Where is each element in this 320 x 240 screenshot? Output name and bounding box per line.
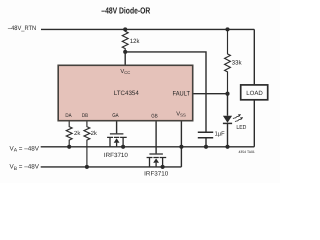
svg-text:GB: GB <box>151 113 158 119</box>
node Q1 drain <box>121 145 125 149</box>
LED D1 <box>227 94 229 147</box>
wire FAULT pin <box>193 93 228 95</box>
transistor Q2 IRF3710 <box>147 154 167 167</box>
wire cap bottom <box>205 138 207 147</box>
svg-text:VCC: VCC <box>120 69 130 75</box>
node cap bottom <box>204 145 208 149</box>
svg-text:LOAD: LOAD <box>246 90 263 97</box>
svg-text:33k: 33k <box>232 59 243 66</box>
svg-text:IRF3710: IRF3710 <box>144 170 169 177</box>
svg-text:2k: 2k <box>91 130 98 137</box>
LED triangle <box>223 116 232 123</box>
op-amp U1 LTC4354 body <box>58 65 193 120</box>
svg-text:2k: 2k <box>74 130 81 137</box>
transistor Q1 body diode <box>114 138 120 142</box>
resistor R1 12k <box>122 29 128 52</box>
svg-text:1µF: 1µF <box>215 130 225 137</box>
wire VSS pin down <box>180 121 182 147</box>
resistor R4 2k (DB) <box>84 121 90 167</box>
node DA rail <box>67 145 71 149</box>
node LED bottom <box>225 145 229 149</box>
wire GA pin to gate <box>116 121 118 134</box>
svg-text:–48V_RTN: –48V_RTN <box>8 25 37 32</box>
LED emission arrows <box>233 116 242 122</box>
LOAD box <box>241 85 268 100</box>
node 33k top <box>225 27 229 31</box>
node Q2 drain <box>161 165 165 169</box>
node VSS <box>179 145 183 149</box>
svg-text:DA: DA <box>65 113 72 119</box>
svg-text:4354 TA01: 4354 TA01 <box>239 150 255 154</box>
node FAULT <box>225 92 229 96</box>
svg-text:VSS: VSS <box>176 111 186 117</box>
wire GB pin to gate <box>155 121 157 154</box>
svg-text:DB: DB <box>82 113 89 119</box>
svg-text:VA = –48V: VA = –48V <box>10 145 40 153</box>
wire LOAD bottom to VSS rail <box>253 100 255 147</box>
wire right drop to LOAD <box>253 29 255 85</box>
wire VCC pin <box>124 52 126 65</box>
resistor R3 2k (DA) <box>66 121 72 147</box>
svg-text:IRF3710: IRF3710 <box>104 152 129 159</box>
svg-text:FAULT: FAULT <box>173 90 191 97</box>
wire bottom VA/VSS rail <box>41 146 255 148</box>
node VCC top <box>123 27 127 31</box>
wire VCC to bypass cap <box>125 52 206 132</box>
node DB VB rail <box>85 165 89 169</box>
svg-text:LTC4354: LTC4354 <box>114 90 139 97</box>
svg-text:VB = –48V: VB = –48V <box>10 164 40 172</box>
resistor R2 33k <box>225 29 231 93</box>
wire VB rail <box>41 166 182 168</box>
svg-text:LED: LED <box>236 125 246 131</box>
wire VB riser to VSS rail <box>180 147 182 167</box>
svg-text:–48V Diode-OR: –48V Diode-OR <box>101 6 150 16</box>
svg-text:12k: 12k <box>130 38 140 45</box>
transistor Q1 IRF3710 <box>107 134 127 147</box>
node VCC <box>123 50 127 54</box>
wire top rail -48V_RTN <box>41 28 254 30</box>
transistor Q2 body diode <box>153 158 159 162</box>
svg-text:GA: GA <box>112 113 119 119</box>
capacitor C1 1uF <box>198 132 213 138</box>
